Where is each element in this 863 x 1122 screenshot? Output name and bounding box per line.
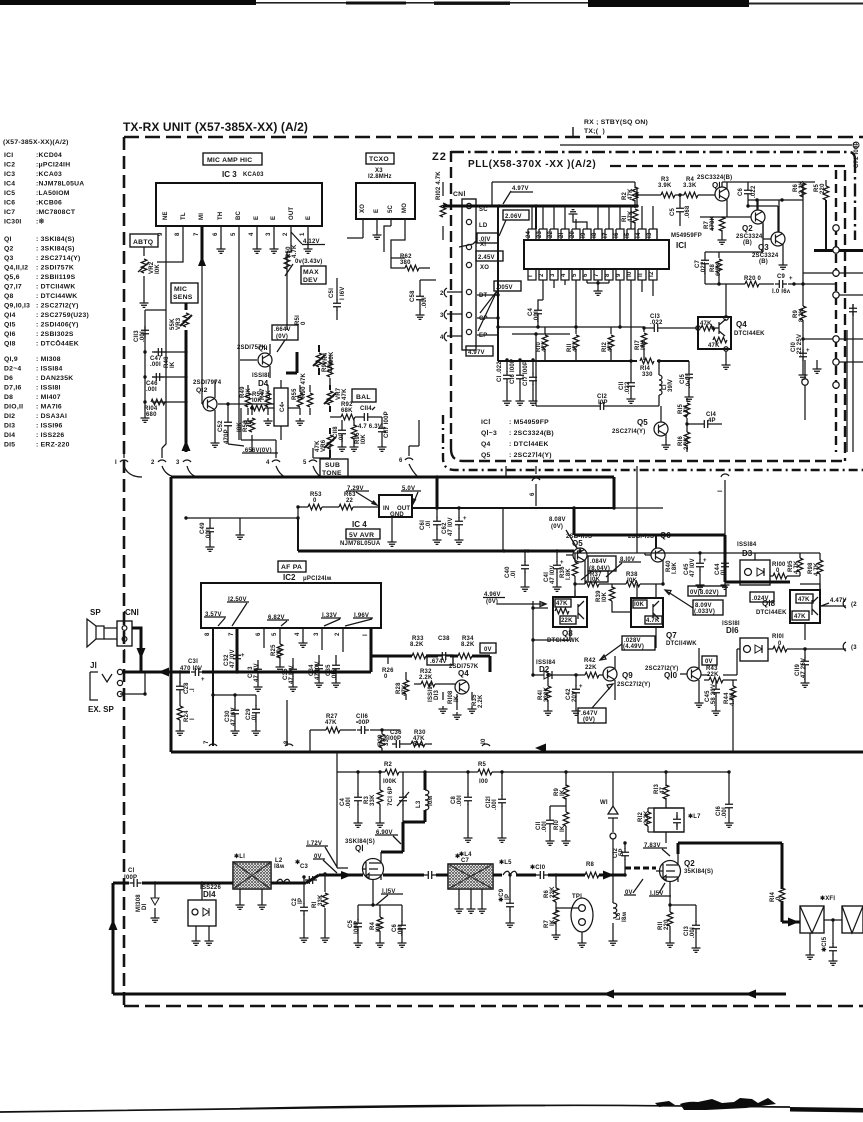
svg-text:QⅠ: QⅠ [712,181,721,190]
BAL box + pots cluster [352,389,376,402]
svg-text:MO: MO [402,203,408,213]
Q7 box [631,598,663,627]
svg-text:QⅠ8: QⅠ8 [762,599,776,608]
svg-text:0v(3.43v): 0v(3.43v) [295,259,323,265]
svg-text:47K: 47K [315,440,321,452]
svg-text:✱L4: ✱L4 [459,851,472,858]
R15 C14 R16 [687,398,722,424]
svg-text:Ⅰ: Ⅰ [527,275,534,277]
svg-text:+: + [789,276,793,282]
svg-text:DT: DT [479,293,488,299]
C118 R95 [342,420,354,444]
R6 2.2K / R5 220 [748,200,803,232]
svg-text:.0ⅠV: .0ⅠV [479,236,491,243]
svg-text::KCB06: :KCB06 [36,200,62,207]
svg-text:7CⅠ 6P: 7CⅠ 6P [387,786,394,806]
svg-text:20: 20 [570,230,576,238]
svg-text:QⅠ: QⅠ [355,844,364,853]
svg-text:: ERZ-220: : ERZ-220 [36,442,70,449]
svg-text:KCA03: KCA03 [243,172,264,178]
svg-text:3: 3 [314,632,320,636]
svg-text:.00I: .00I [140,331,146,342]
C58 .001 [419,280,421,312]
svg-text:.47 25V: .47 25V [801,658,807,680]
svg-text:ⅠK: ⅠK [453,695,460,702]
svg-text:.00I: .00I [150,362,161,368]
svg-text:2.06V: 2.06V [505,214,522,220]
svg-text:CⅠ6: CⅠ6 [715,805,722,816]
svg-text:JⅠ: JⅠ [90,661,97,670]
svg-text:RⅠ6: RⅠ6 [677,435,684,446]
svg-text:I0K: I0K [155,264,161,274]
svg-text:Ⅰ.8K: Ⅰ.8K [565,568,572,580]
svg-text:.00I: .00I [422,297,428,308]
svg-text:470K: 470K [710,215,716,231]
svg-text:QI: QI [4,236,12,243]
svg-text:MIC AMP HIC: MIC AMP HIC [207,157,252,164]
svg-text:SC: SC [479,207,488,213]
svg-text:ICI: ICI [4,152,13,159]
svg-text:QI2: QI2 [196,387,208,394]
svg-text:ISSI8Ⅰ: ISSI8Ⅰ [252,372,270,379]
svg-text:220: 220 [664,919,670,930]
svg-text:Ⅰ I6V: Ⅰ I6V [339,287,346,300]
connector arcs bottom of mic section [120,446,418,477]
svg-text:7: 7 [204,740,210,744]
svg-text:Ⅰ0K: Ⅰ0K [590,576,601,583]
svg-text:D2~4: D2~4 [4,366,21,373]
svg-text:: MA7I6: : MA7I6 [36,404,62,411]
svg-text:47 Ⅰ0V: 47 Ⅰ0V [447,517,454,536]
svg-text:.084V: .084V [590,559,607,565]
svg-text:3.3K: 3.3K [683,183,697,189]
svg-text:1: 1 [300,232,306,236]
svg-text:8.2K: 8.2K [799,308,805,322]
Q2 emitter chain C7 R8 [705,224,763,284]
svg-text:Ⅰ0K: Ⅰ0K [634,601,645,608]
Q8 box [553,597,587,627]
svg-text:.00Ⅰ: .00Ⅰ [721,807,728,818]
svg-text:•00P: •00P [356,720,370,726]
svg-text:3: 3 [266,232,272,236]
svg-text:XO: XO [480,265,489,271]
thick SC bus y=206 [443,205,637,208]
Q2 FET [660,861,681,882]
input wire [186,507,379,518]
svg-text:0: 0 [384,674,388,680]
svg-text:47K: 47K [573,340,579,352]
svg-text:VR6: VR6 [321,439,327,452]
wire y553 right [574,552,755,554]
svg-text:Ⅰ: Ⅰ [189,718,196,720]
PLL interior rails [498,206,689,361]
R9 8.2K C10 [802,284,804,372]
svg-text:C3Ⅰ: C3Ⅰ [188,658,198,665]
svg-text:ⅠSSⅠ96: ⅠSSⅠ96 [427,682,434,702]
svg-text:E: E [254,216,260,220]
svg-text:5C: 5C [388,204,394,213]
svg-text:DIO,II: DIO,II [4,404,23,411]
svg-text:.00Ⅰ: .00Ⅰ [397,925,404,936]
svg-text:: DAN235K: : DAN235K [36,375,73,382]
svg-text:4: 4 [561,273,567,277]
svg-text:ⅠSSⅠ84: ⅠSSⅠ84 [737,541,757,548]
svg-text:IC3: IC3 [4,171,15,178]
svg-text:SENS: SENS [173,294,193,301]
svg-text:RⅠ08: RⅠ08 [447,690,454,704]
IC2 box [201,583,381,628]
svg-text:(0V): (0V) [486,599,498,605]
svg-text:4.7K: 4.7K [646,618,660,624]
verticals pins up to bus [532,206,653,229]
bias vertical x=337 [337,772,348,868]
C12 5P from drain line [624,843,626,866]
svg-text:IN: IN [383,506,389,512]
svg-text:3: 3 [550,273,556,277]
svg-text:SP: SP [90,608,101,617]
svg-text::KCA03: :KCA03 [36,171,62,178]
svg-text:47K: 47K [794,614,806,620]
R25 100 [279,640,281,664]
svg-text:: ISSI96: : ISSI96 [36,423,63,430]
svg-text:: ISSI8I: : ISSI8I [36,385,61,392]
svg-text:Ⅰ00: Ⅰ00 [276,648,283,658]
svg-text:Q5: Q5 [637,418,648,427]
grounds on E pins [217,246,226,253]
C2 R1 [304,874,325,935]
R26 R28 D13 R108 cluster [387,656,389,664]
bottom bus arrows [112,883,115,994]
svg-text:RX ; STBY(SQ ON): RX ; STBY(SQ ON) [584,119,648,126]
svg-text:BC: BC [236,210,242,220]
svg-text:.0Ⅰ: .0Ⅰ [510,571,517,578]
svg-text:CⅠ0: CⅠ0 [790,341,797,352]
svg-text:D7,I6: D7,I6 [4,385,22,392]
R27 C116 R29 C36 R30 row [310,729,400,731]
svg-text:6: 6 [213,232,219,236]
svg-text:Ⅰ8: Ⅰ8 [591,232,598,238]
supply wire y=772 [337,752,729,772]
svg-text:: DTCŌ44EK: : DTCŌ44EK [36,340,79,348]
svg-text:Ⅰ5: Ⅰ5 [624,232,631,238]
svg-text:CⅠⅠ9: CⅠⅠ9 [794,664,801,676]
wire pin8 down to ABTQ net [157,240,183,262]
svg-text:47K: 47K [542,340,548,352]
IC3 hybrid box [156,183,322,226]
L6 [611,873,614,876]
svg-text:WⅠ: WⅠ [600,799,608,806]
svg-text:Ⅰ7: Ⅰ7 [602,232,609,238]
svg-text:.00Ⅰ: .00Ⅰ [541,821,548,832]
svg-text:2.2K: 2.2K [419,675,433,681]
PLL dashed box [451,151,845,461]
svg-text:Ⅰ2: Ⅰ2 [648,271,655,277]
C6 .022 [747,182,749,206]
svg-text:7: 7 [229,632,235,636]
left cap chain C113 C47 C46 R104 [145,310,166,415]
C5 .068 [679,195,681,226]
svg-text:4P: 4P [708,418,716,424]
output chain right of IC2 [371,656,490,672]
svg-text:CⅠ6 Ⅰ00P: CⅠ6 Ⅰ00P [509,359,516,384]
VR4 [318,345,320,375]
R56 [251,408,253,452]
svg-text:C3: C3 [300,864,309,870]
Q2 source R11 C13 [670,905,696,945]
svg-text:8.2K: 8.2K [410,642,424,648]
right thick line and pads [814,249,863,252]
VR3 55K pot thick [185,303,188,336]
svg-text:RⅠ: RⅠ [311,901,318,908]
svg-text:: DSA3AI: : DSA3AI [36,413,67,420]
svg-text:: 2SC3324(B): : 2SC3324(B) [509,430,554,437]
.084V box [588,556,616,571]
svg-text:DEV: DEV [303,277,318,284]
8.09V box [693,600,723,615]
svg-text:2.2K: 2.2K [684,436,690,450]
outer dash route bottom [443,415,863,470]
C15 cap [688,361,690,394]
svg-text:.00Ⅰ: .00Ⅰ [205,529,212,540]
svg-text:6: 6 [399,458,403,464]
svg-text:(2: (2 [851,602,857,608]
svg-text:ⅠP: ⅠP [297,898,304,904]
svg-text:.0•0Ⅰ: .0•0Ⅰ [685,375,692,388]
svg-text:47 Ⅰ0V: 47 Ⅰ0V [689,558,696,577]
svg-text:7: 7 [594,273,600,277]
svg-text:TL: TL [181,212,187,220]
svg-text:.674V: .674V [430,659,447,665]
svg-text:5: 5 [303,460,307,466]
svg-text:: ISSI84: : ISSI84 [36,366,63,373]
svg-text:5V AVR: 5V AVR [349,532,374,539]
svg-text:XO: XO [360,204,366,213]
top components right: R9 R10 C11 W1 R12 L7 R13 C16 [550,772,566,838]
svg-text:2SDI7974: 2SDI7974 [193,380,222,386]
svg-text:QI6: QI6 [4,331,16,338]
svg-text:380: 380 [400,260,411,266]
4.12V note [291,232,302,244]
svg-text:IC2: IC2 [283,573,296,582]
svg-text:33K: 33K [370,794,376,806]
svg-text:Ⅰ4: Ⅰ4 [635,232,642,238]
svg-text:ⅠK: ⅠK [559,825,566,832]
top pin boxes 24..13 [528,229,657,240]
svg-text:4: 4 [249,232,255,236]
D1 [154,883,156,915]
svg-text:+: + [201,677,205,683]
svg-text:.Ⅰ: .Ⅰ [189,688,196,692]
svg-text:: 2SDI757K: : 2SDI757K [36,265,74,272]
TCXO box [356,183,415,219]
svg-text:CⅠⅠ: CⅠⅠ [535,821,542,830]
svg-text:47K: 47K [608,340,614,352]
svg-text:(4.49V): (4.49V) [623,644,644,650]
svg-text:+: + [703,558,707,564]
svg-text:CⅠ2: CⅠ2 [612,847,619,858]
C51 [336,278,338,320]
svg-text:IC 4: IC 4 [352,520,367,529]
svg-text:✱L5: ✱L5 [499,859,512,866]
svg-text:C7: C7 [461,858,470,864]
svg-text:22: 22 [346,498,354,504]
wire pin9 down [162,240,166,448]
svg-text:470P: 470P [224,429,230,444]
svg-text:RI02 4.7K: RI02 4.7K [436,171,442,200]
svg-text:PLL(X58-370X -XX )(A/2): PLL(X58-370X -XX )(A/2) [468,159,596,170]
caps under IC2: C33 C35 C34 [258,655,336,684]
svg-text:Ⅰ.8K: Ⅰ.8K [671,562,678,574]
svg-text:8: 8 [175,232,181,236]
svg-text:C6: C6 [738,187,744,196]
svg-text:TH: TH [218,212,224,220]
svg-text:MAX: MAX [303,269,319,276]
R36 [574,553,576,562]
svg-text:R2: R2 [384,762,393,768]
svg-text:Ⅰ.0 Ⅰ6ʌ: Ⅰ.0 Ⅰ6ʌ [772,288,791,295]
svg-text:I0K: I0K [246,388,252,398]
svg-text:: 2SC27I2(Y): : 2SC27I2(Y) [36,303,79,310]
svg-text:47 Ⅰ0V: 47 Ⅰ0V [549,565,556,584]
svg-text:E: E [306,216,312,220]
svg-text:IC 3: IC 3 [222,170,237,179]
svg-text:Q4: Q4 [736,320,747,329]
svg-text:I0K: I0K [361,434,367,444]
svg-text:4: 4 [266,460,270,466]
svg-text:(X57-385X-XX)(A/2): (X57-385X-XX)(A/2) [3,139,69,146]
svg-text:I0K: I0K [266,390,272,400]
svg-text:MIC: MIC [174,286,187,293]
svg-text:Q9: Q9 [622,671,633,680]
IC1 [524,240,669,269]
svg-text:0: 0 [301,321,307,325]
svg-text:CⅠ .022: CⅠ .022 [496,361,503,382]
svg-text:D4: D4 [258,379,269,388]
svg-text:2: 2 [440,291,444,297]
L1 39t coil [658,361,660,406]
svg-text:+: + [560,560,564,566]
svg-text:C5Ⅰ: C5Ⅰ [328,288,335,298]
VR2 pot [143,247,145,300]
svg-text:.0Ⅰ: .0Ⅰ [720,570,727,577]
svg-text:8: 8 [284,740,290,744]
svg-text:Ⅰ8ʍ: Ⅰ8ʍ [621,911,628,922]
svg-text:2: 2 [151,460,155,466]
2.06V box [503,210,529,220]
out wire [412,507,614,509]
svg-text:.0Ⅰ: .0Ⅰ [251,715,258,722]
extra dashed routes right [610,165,845,167]
svg-text:CII4: CII4 [360,406,372,412]
svg-text:47K: 47K [325,720,337,726]
CN1 speaker connector [117,621,132,646]
svg-text:3: 3 [440,313,444,319]
left arcs 2,3,4 [444,288,462,341]
svg-text:(B): (B) [759,259,768,265]
svg-text:RⅠ0Ⅰ: RⅠ0Ⅰ [772,633,784,640]
svg-text:TCXO: TCXO [369,156,389,163]
svg-text:R8: R8 [586,862,595,868]
svg-text:RⅠ4: RⅠ4 [769,891,776,902]
svg-text:DⅠ3: DⅠ3 [433,689,440,700]
svg-text:: 3SKI84(S): : 3SKI84(S) [36,236,75,243]
R91 [329,355,331,385]
L5 C9 [493,874,626,877]
R7 470K [711,217,713,230]
svg-text:9: 9 [414,740,420,744]
svg-text:✱L7: ✱L7 [688,813,701,820]
0V R43 [702,656,717,665]
svg-text:DTCⅠ44EK: DTCⅠ44EK [756,609,787,616]
svg-text:Ⅰ00: Ⅰ00 [375,922,382,932]
svg-text:MI: MI [199,213,205,220]
svg-text:20V: 20V [572,691,578,702]
svg-text:330K: 330K [544,686,550,702]
svg-text:ICⅠ: ICⅠ [676,241,686,250]
PLL top dash-dot edge [451,152,855,240]
svg-text:4.97V: 4.97V [468,350,485,356]
svg-text:I: I [115,460,117,466]
svg-text:47K: 47K [798,597,810,603]
svg-text::※: :※ [36,218,45,226]
legend [481,418,554,459]
svg-text:: DTCⅠ44EK: : DTCⅠ44EK [509,440,549,448]
R10 R11 R12 R17 [545,327,644,360]
svg-text:M54959FP: M54959FP [671,233,702,239]
svg-text:Q7,I7: Q7,I7 [4,284,22,291]
svg-text:Q2: Q2 [4,246,14,253]
svg-text:CⅠ2Ⅰ: CⅠ2Ⅰ [485,796,492,808]
svg-text:✱LⅠ: ✱LⅠ [234,853,245,860]
svg-text:Q2: Q2 [684,859,695,868]
svg-text:AF PA: AF PA [281,564,302,571]
svg-text:47K: 47K [402,684,408,696]
svg-text:VR3: VR3 [176,317,182,330]
bottom pin boxes [528,269,657,280]
svg-text:: 2SC27Ⅰ4(Y): : 2SC27Ⅰ4(Y) [509,451,552,459]
svg-text:DI4: DI4 [4,432,15,439]
svg-text::KCD04: :KCD04 [36,152,62,159]
svg-text:RⅠ7: RⅠ7 [634,339,641,350]
R37 R38 row y584 [575,583,663,585]
svg-text:Ⅰ6: Ⅰ6 [613,232,620,238]
svg-text:: MI308: : MI308 [36,356,61,363]
svg-text:C38: C38 [438,636,450,642]
pin20 gnd hook [573,217,587,229]
svg-text:Q5: Q5 [481,452,491,459]
svg-text:QI5: QI5 [4,322,16,329]
svg-text:8.08V: 8.08V [549,517,566,523]
svg-text:✱CⅠ0: ✱CⅠ0 [530,864,546,871]
svg-text:LⅠ: LⅠ [661,384,668,390]
svg-text:.00Ⅰ: .00Ⅰ [533,311,540,322]
svg-text:CⅠ5: CⅠ5 [679,373,686,384]
svg-text:CⅠ4: CⅠ4 [706,411,717,418]
C8 C121 [468,772,502,835]
svg-text:Q4: Q4 [481,441,491,448]
svg-text:RⅠ00: RⅠ00 [772,561,786,568]
svg-text:(0V): (0V) [276,334,288,340]
wires Q12 collector to D4 [218,404,300,408]
svg-text:CII7 I00P: CII7 I00P [384,411,390,438]
.024V box [750,592,774,602]
svg-text:Z2: Z2 [432,151,447,163]
svg-text:47K: 47K [708,343,720,349]
svg-text:OUT: OUT [289,207,295,220]
svg-text:47 Ⅰ0V: 47 Ⅰ0V [288,665,295,684]
.664V box [272,325,298,340]
svg-text:2SC27Ⅰ2(Y): 2SC27Ⅰ2(Y) [617,681,650,688]
